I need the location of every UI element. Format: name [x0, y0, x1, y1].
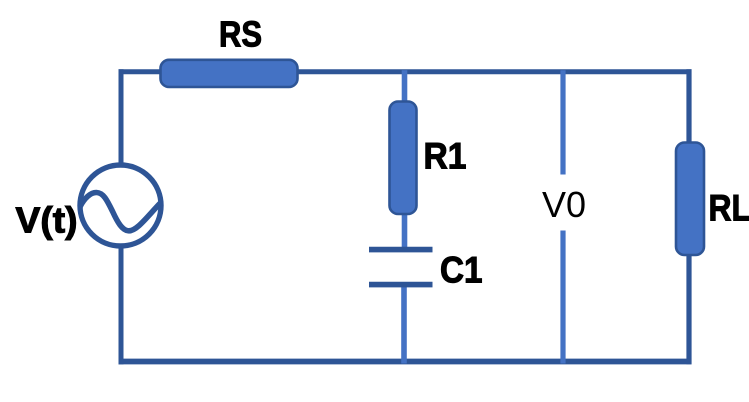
wire left upper: [119, 69, 124, 168]
wire right: [686, 69, 691, 364]
svg-text:C1: C1: [440, 250, 483, 291]
node V0 line upper: [560, 70, 565, 174]
svg-text:RS: RS: [219, 14, 262, 55]
wire left lower: [119, 244, 124, 364]
wire middle stub upper: [402, 70, 408, 106]
resistor RL: [676, 143, 704, 256]
svg-text:R1: R1: [424, 136, 467, 177]
voltage source V(t): [80, 165, 161, 246]
svg-text:RL: RL: [709, 188, 749, 229]
capacitor C1 bottom plate: [369, 282, 433, 288]
node V0 line lower: [560, 231, 565, 364]
wire top: [119, 69, 692, 74]
wire middle stub R1 to C1: [402, 210, 408, 251]
svg-text:V0: V0: [542, 184, 586, 225]
wire bottom: [119, 359, 692, 365]
svg-text:V(t): V(t): [16, 200, 78, 241]
resistor RS: [161, 60, 298, 87]
wire middle stub below C1: [401, 284, 407, 364]
capacitor C1 top plate: [369, 247, 433, 253]
resistor R1: [390, 102, 417, 215]
